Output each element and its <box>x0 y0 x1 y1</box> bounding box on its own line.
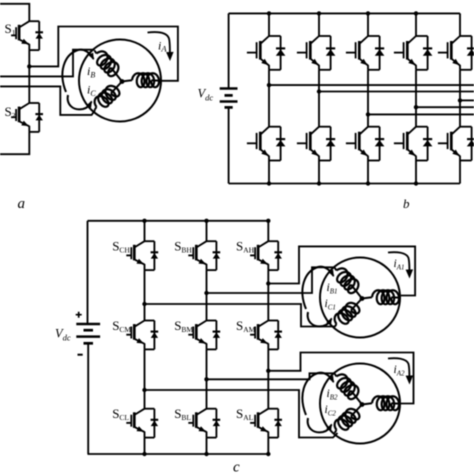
wire: left DC- vertical (c) <box>87 343 89 454</box>
transistor S_CM with antiparallel diode (c) <box>135 321 144 327</box>
node: bottom rail junction leg C (c) <box>142 452 146 456</box>
node: tap C1 on leg C (c) <box>142 302 146 306</box>
transistor S_BH with antiparallel diode (c) <box>197 241 206 247</box>
node: tap A2 on leg A (c) <box>266 369 270 373</box>
wire: leg 5 upper collector lead (b) <box>459 13 461 36</box>
node: top rail junction leg A (c) <box>266 219 270 223</box>
svg-text:S2: S2 <box>5 104 16 120</box>
wire: leg 4 midpoint vertical (b) <box>415 70 417 127</box>
current arrow iC1 into phase-C winding of motor M1 <box>308 312 332 326</box>
svg-text:SAL: SAL <box>236 406 254 422</box>
wire: leg 1 lower emitter lead (b) <box>268 161 270 184</box>
wire: leg A between SAM and SAL (c) <box>267 349 269 408</box>
svg-text:SBH: SBH <box>174 239 192 255</box>
wire: phase C1 feeder with jog (c) <box>145 304 335 327</box>
wire: phase A from midpoint wrapping over motor (a) <box>29 27 178 81</box>
wire: phase B feeder with jog (a) <box>0 50 95 77</box>
transistor S_BM with antiparallel diode (c) <box>197 321 206 327</box>
wire: S2 emitter to DC- rail (a) <box>0 132 29 154</box>
wire: leg C between SCH and SCM (c) <box>144 270 146 320</box>
phase-C winding of motor M2 <box>335 409 360 430</box>
phase-A winding of motor M1 <box>372 290 399 304</box>
node: bottom rail junction leg 3 (b) <box>366 181 370 185</box>
current arrow iB2 into phase-B winding of motor M2 <box>302 373 333 415</box>
wire: leg 3 upper collector lead (b) <box>367 13 369 36</box>
wire: DC- bottom rail (c) <box>88 453 269 455</box>
wire: output phase line leg 3 to right edge (b) <box>368 113 474 115</box>
battery Vdc (b) bottom lead <box>228 107 230 183</box>
wire: leg C from SCL to bottom rail (c) <box>144 438 146 454</box>
wire: phase A1 from leg A wrapping over motor M1 (c) <box>268 246 415 295</box>
label + (battery positive) <box>76 312 82 318</box>
node: tap C2 on leg C (c) <box>142 388 146 392</box>
motor Ma star point <box>120 79 125 84</box>
transistor S5H with antiparallel diode (b) <box>452 36 460 43</box>
svg-text:iA1: iA1 <box>394 258 405 272</box>
transistor S3H with antiparallel diode (b) <box>360 36 368 43</box>
svg-text:iA: iA <box>158 39 167 54</box>
phase-B winding of motor M1 <box>337 268 359 293</box>
wire: leg 3 lower emitter lead (b) <box>367 161 369 184</box>
wire: leg 2 midpoint vertical (b) <box>318 70 320 127</box>
wire: DC+ top rail (c) <box>88 220 269 222</box>
phase-A winding of motor Ma <box>132 73 159 87</box>
wire: leg B between SBM and SBL (c) <box>206 349 208 408</box>
transistor S1L with antiparallel diode (b) <box>261 127 269 134</box>
wire: DC+ lead into S1 (a) <box>0 4 29 21</box>
wire: output phase line leg 1 to right edge (b) <box>269 84 474 86</box>
wire: leg 5 midpoint vertical (b) <box>459 70 461 127</box>
wire: leg 3 midpoint vertical (b) <box>367 70 369 127</box>
motor M1 star point <box>360 296 365 301</box>
svg-text:Vdc: Vdc <box>55 327 71 343</box>
svg-text:b: b <box>403 196 410 211</box>
wire: DC- bottom rail (b) <box>229 183 460 185</box>
motor Ma stator circle <box>79 40 161 122</box>
wire: leg B between SBH and SBM (c) <box>206 270 208 320</box>
wire: leg B from SBL to bottom rail (c) <box>206 438 208 454</box>
node: output tap leg 2 (b) <box>317 89 321 93</box>
wire: leg 1 upper collector lead (b) <box>268 13 270 36</box>
wire: leg A from top rail to SAH (c) <box>267 221 269 241</box>
wire: leg 2 lower emitter lead (b) <box>318 161 320 184</box>
wire: leg C between SCM and SCL (c) <box>144 349 146 408</box>
transistor S_AH with antiparallel diode (c) <box>259 241 268 247</box>
wire: leg 1 midpoint vertical (b) <box>268 70 270 127</box>
transistor S_AM with antiparallel diode (c) <box>259 321 268 327</box>
node: top rail junction leg 1 (b) <box>267 11 271 15</box>
phase-A winding of motor M2 <box>372 396 399 410</box>
wire: leg 4 upper collector lead (b) <box>415 13 417 36</box>
transistor S5L with antiparallel diode (b) <box>452 127 460 134</box>
node: top rail junction leg 2 (b) <box>317 11 321 15</box>
battery Vdc (b) <box>220 87 238 90</box>
node: output tap leg 1 (b) <box>267 83 271 87</box>
wire: phase C feeder with jog (a) <box>0 86 95 115</box>
wire: leg B from top rail to SBH (c) <box>206 221 208 241</box>
phase-B winding of motor M2 <box>337 374 359 399</box>
svg-text:SBL: SBL <box>174 406 191 422</box>
current arrow i_A2 (c) <box>388 358 409 377</box>
wire: phase C2 feeder with jog (c) <box>145 390 338 438</box>
wire: leg C from top rail to SCH (c) <box>144 221 146 241</box>
wire: S1 emitter to midpoint node (a) <box>28 50 30 66</box>
transistor S3L with antiparallel diode (b) <box>360 127 368 134</box>
motor M2 star point <box>360 402 365 407</box>
node: bottom rail junction leg B (c) <box>204 452 208 456</box>
node: bottom rail junction leg A (c) <box>266 452 270 456</box>
svg-text:iC2: iC2 <box>325 404 337 418</box>
node: top rail junction leg B (c) <box>204 219 208 223</box>
transistor S2H with antiparallel diode (b) <box>311 36 319 43</box>
node: phase-A midpoint junction (a) <box>27 64 31 68</box>
node: tap B2 on leg B (c) <box>204 377 208 381</box>
motor M2 stator circle <box>320 364 400 444</box>
wire: output phase line leg 5 to right edge (b) <box>460 99 474 101</box>
wire: leg A between SAH and SAM (c) <box>267 270 269 320</box>
current arrow iB into phase-B winding of motor Ma <box>62 50 93 92</box>
svg-text:iC1: iC1 <box>325 298 336 312</box>
wire: phase B2 feeder with jog (c) <box>207 373 335 379</box>
svg-text:iB1: iB1 <box>327 282 338 296</box>
wire: leg 4 lower emitter lead (b) <box>415 161 417 184</box>
node: bottom rail junction leg 1 (b) <box>267 181 271 185</box>
current arrow i_A (a) <box>148 32 170 53</box>
wire: output phase line leg 4 to right edge (b) <box>416 106 474 108</box>
current arrow iC into phase-C winding of motor Ma <box>68 95 92 109</box>
wire: midpoint down to S2 collector crossing phase wires (a) <box>28 66 30 103</box>
wire: phase B1 feeder with jog (c) <box>207 267 335 293</box>
transistor S_CH with antiparallel diode (c) <box>135 241 144 247</box>
svg-text:a: a <box>18 196 26 212</box>
node: tap B1 on leg B (c) <box>204 291 208 295</box>
transistor S_AL with antiparallel diode (c) <box>259 409 268 415</box>
current arrow i_A1 (c) <box>388 252 409 271</box>
transistor S4H with antiparallel diode (b) <box>408 36 416 43</box>
svg-text:iB2: iB2 <box>327 388 338 402</box>
svg-text:iB: iB <box>87 64 95 80</box>
node: output tap leg 4 (b) <box>414 105 418 109</box>
svg-text:SBM: SBM <box>174 318 193 334</box>
svg-text:c: c <box>233 460 240 474</box>
transistor S2 with antiparallel diode (a) <box>20 103 29 109</box>
current arrow iB1 into phase-B winding of motor M1 <box>302 267 333 309</box>
wire: DC+ top rail (b) <box>229 12 460 14</box>
transistor S1H with antiparallel diode (b) <box>261 36 269 43</box>
transistor S_CL with antiparallel diode (c) <box>135 409 144 415</box>
label - (battery negative) <box>78 354 83 356</box>
motor M1 stator circle <box>320 258 400 338</box>
svg-text:iA2: iA2 <box>394 364 405 378</box>
battery Vdc (c) <box>76 323 100 326</box>
wire: left DC+ vertical (c) <box>87 221 89 324</box>
node: bottom rail junction leg 4 (b) <box>414 181 418 185</box>
svg-text:SAM: SAM <box>236 318 256 334</box>
svg-text:iC: iC <box>87 83 96 99</box>
svg-text:S1: S1 <box>5 21 16 37</box>
svg-text:SAH: SAH <box>236 239 255 255</box>
node: output tap leg 3 (b) <box>366 112 370 116</box>
wire: leg 5 lower emitter lead (b) <box>459 161 461 184</box>
transistor S4L with antiparallel diode (b) <box>408 127 416 134</box>
transistor S_BL with antiparallel diode (c) <box>197 409 206 415</box>
wire: phase A2 from leg A wrapping over motor M2 (c) <box>268 353 413 404</box>
node: top rail junction leg 3 (b) <box>366 11 370 15</box>
node: tap A1 on leg A (c) <box>266 281 270 285</box>
battery Vdc (b) top lead <box>228 13 230 88</box>
phase-B winding of motor Ma <box>97 51 119 76</box>
wire: leg A from SAL to bottom rail (c) <box>267 438 269 454</box>
current arrow iC2 into phase-C winding of motor M2 <box>308 418 332 432</box>
svg-text:SCL: SCL <box>112 406 129 422</box>
node: output tap leg 5 (b) <box>458 98 462 102</box>
node: bottom rail junction leg 2 (b) <box>317 181 321 185</box>
svg-text:Vdc: Vdc <box>198 87 214 103</box>
svg-text:SCH: SCH <box>112 239 130 255</box>
node: top rail junction leg C (c) <box>142 219 146 223</box>
phase-C winding of motor M1 <box>335 303 360 324</box>
svg-text:SCM: SCM <box>112 318 131 334</box>
transistor S1 with antiparallel diode (a) <box>20 21 29 27</box>
node: top rail junction leg 4 (b) <box>414 11 418 15</box>
transistor S2L with antiparallel diode (b) <box>311 127 319 134</box>
wire: leg 2 upper collector lead (b) <box>318 13 320 36</box>
wire: output phase line leg 2 to right edge (b) <box>319 91 474 93</box>
phase-C winding of motor Ma <box>95 86 120 107</box>
